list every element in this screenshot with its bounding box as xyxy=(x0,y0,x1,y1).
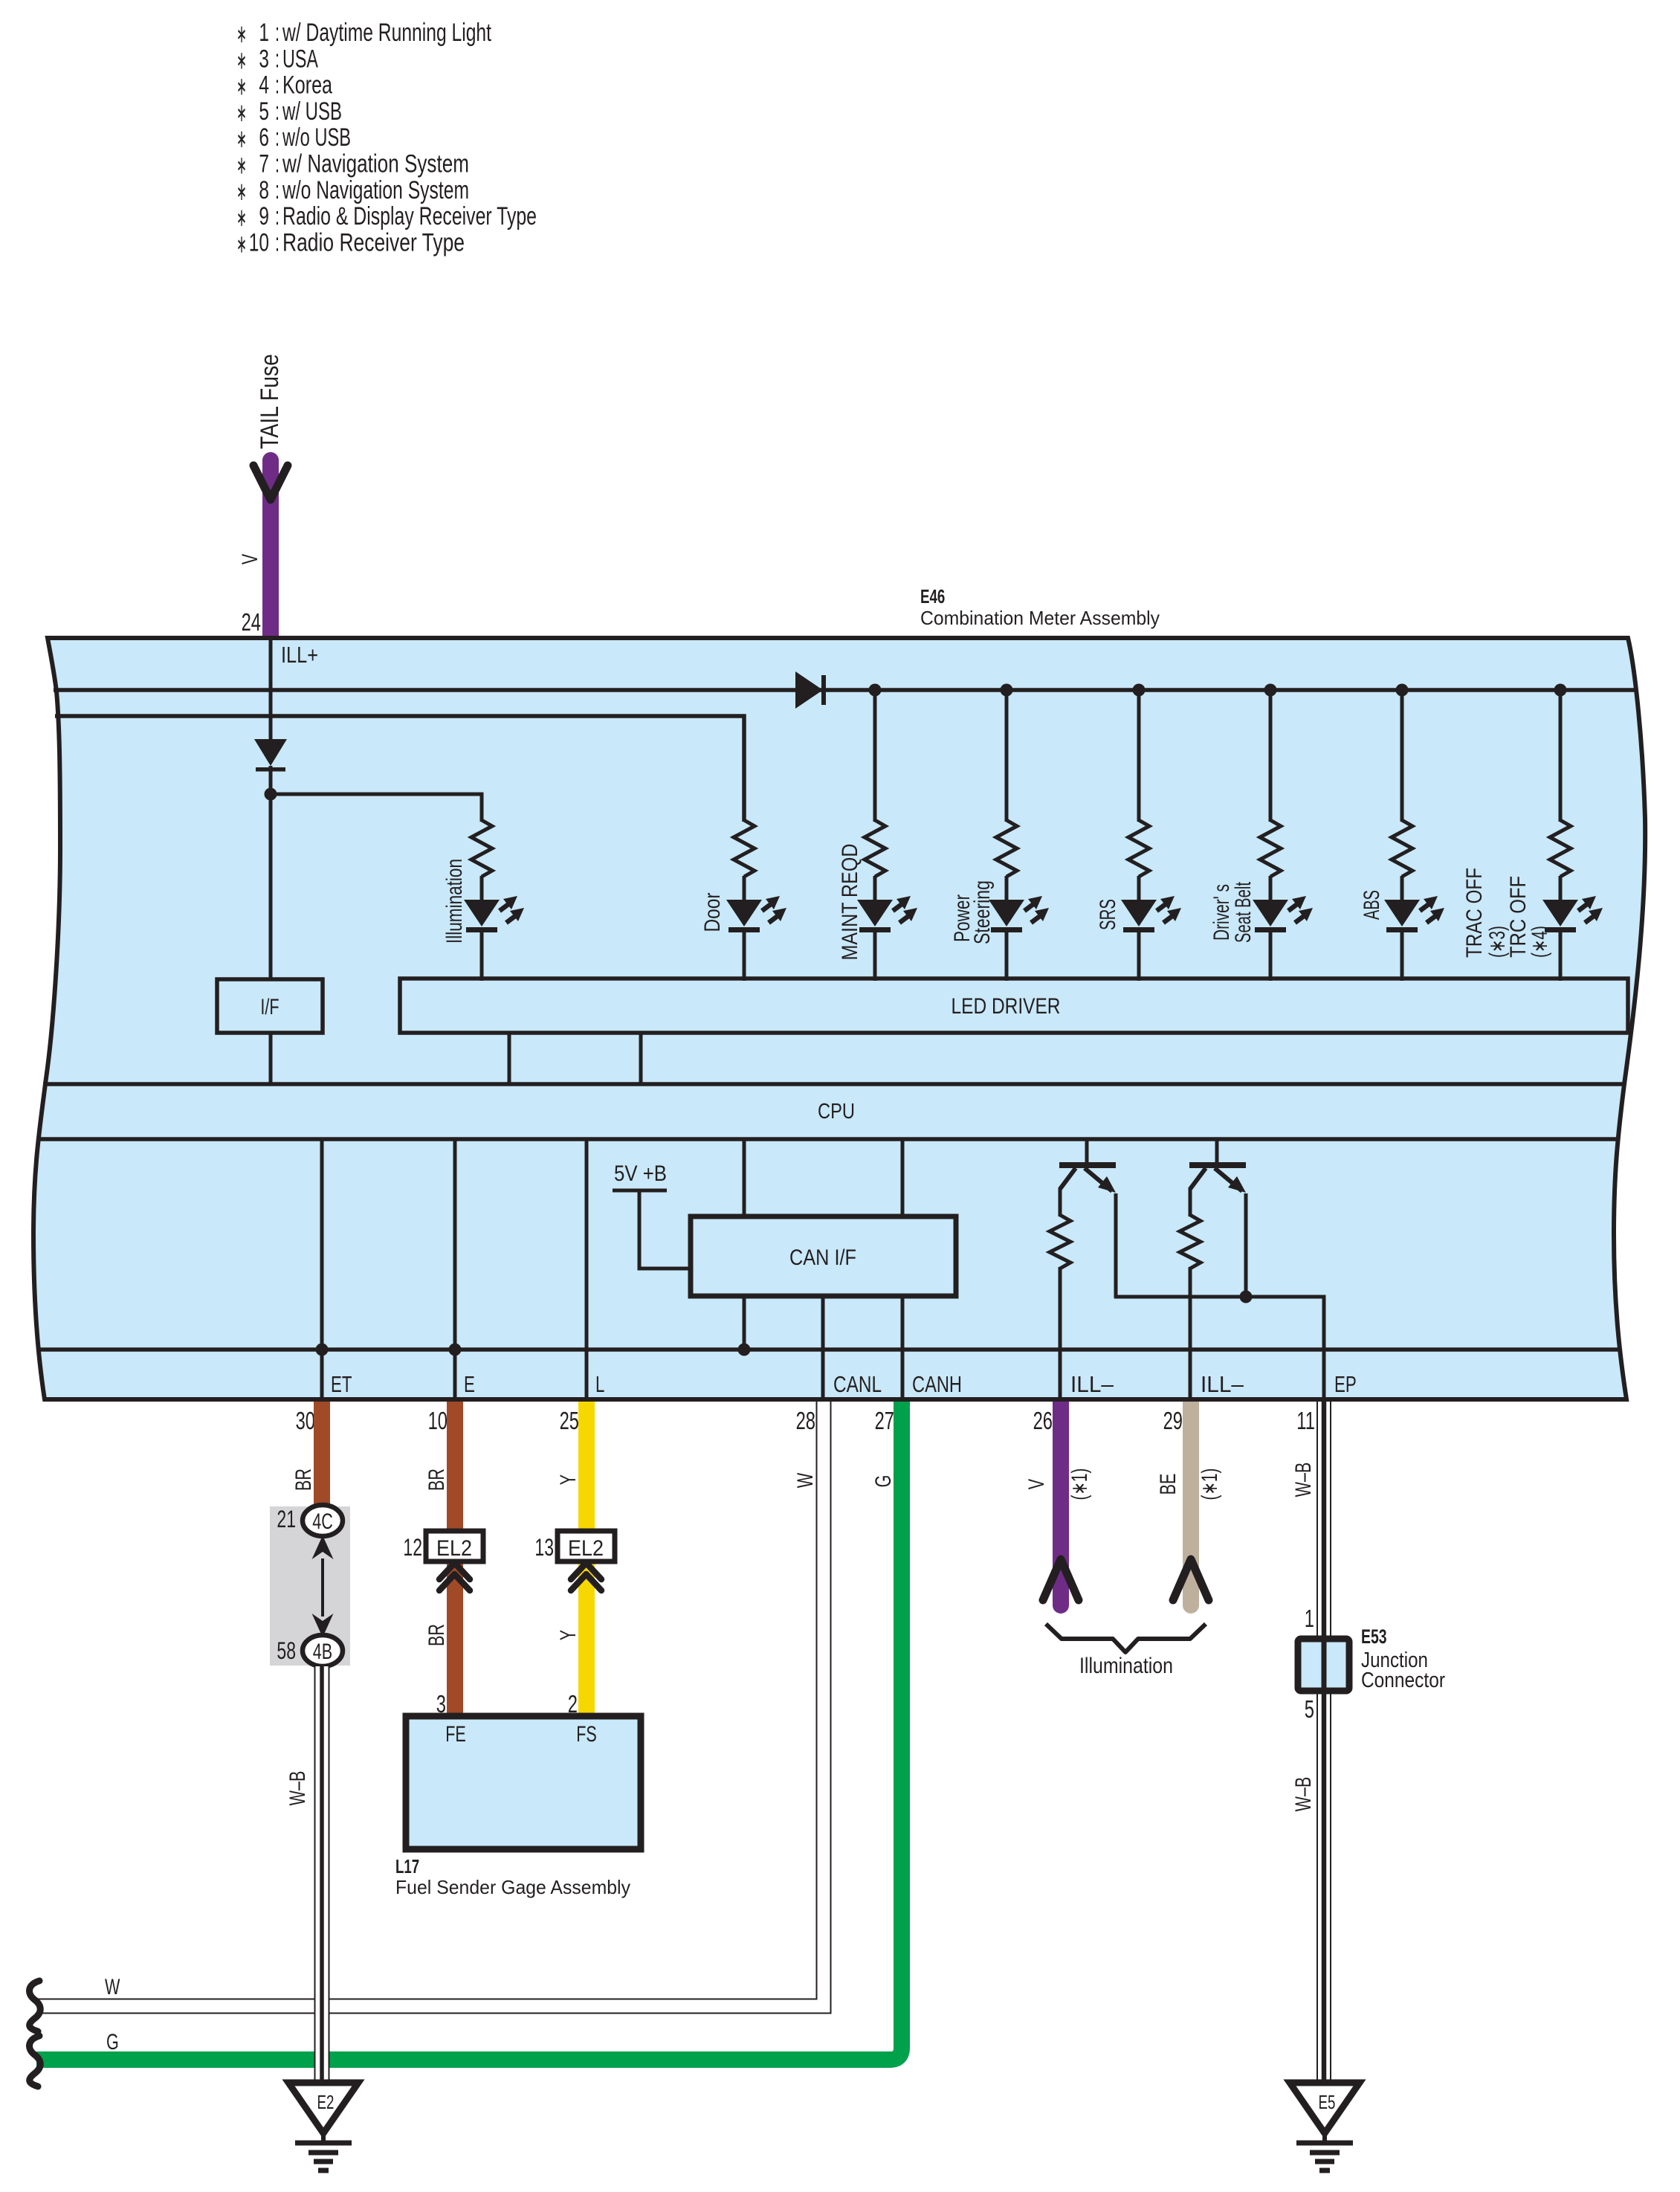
resistor TRAC OFF xyxy=(1550,820,1571,877)
svg-text:∗: ∗ xyxy=(236,204,247,232)
LED indicator seat belt xyxy=(1253,900,1288,926)
resistor SRS xyxy=(1128,820,1149,877)
svg-text:∗: ∗ xyxy=(236,20,247,48)
wire resistor to LED seat belt xyxy=(1269,876,1273,901)
svg-text:W–B: W–B xyxy=(1291,1777,1316,1812)
svg-text:Y: Y xyxy=(556,1474,581,1485)
svg-text:4: 4 xyxy=(259,71,269,100)
ground E5 xyxy=(1290,2083,1360,2170)
wire Y L pin 25 to FS xyxy=(578,1402,595,1718)
resistor power steering xyxy=(996,820,1017,877)
svg-text::: : xyxy=(275,202,280,231)
node junction SRS on ILL+ bus xyxy=(1133,684,1146,697)
transistor Q2 xyxy=(1189,1165,1246,1193)
svg-text:BE: BE xyxy=(1156,1474,1180,1495)
svg-text:∗: ∗ xyxy=(236,230,247,258)
svg-text:9: 9 xyxy=(259,202,269,231)
resistor door xyxy=(734,820,755,877)
svg-text:ILL–: ILL– xyxy=(1201,1371,1244,1397)
node junction TRAC OFF on ILL+ bus xyxy=(1554,684,1567,697)
svg-text:5: 5 xyxy=(259,97,269,126)
resistor ILL- 1 xyxy=(1050,1215,1070,1269)
wire 4C to 4B xyxy=(321,1558,324,1616)
wire CANH xyxy=(901,1294,905,1402)
wire resistor to LED TRAC OFF xyxy=(1559,876,1563,901)
svg-text:CPU: CPU xyxy=(818,1100,855,1124)
svg-text:58: 58 xyxy=(277,1637,296,1664)
wire I/F to CPU xyxy=(269,1033,273,1084)
wire CAN I/F to internal bus xyxy=(743,1294,746,1350)
wire W (CANL pin 28) to left edge xyxy=(36,1402,824,2006)
svg-text:TRAC OFF: TRAC OFF xyxy=(1462,868,1487,958)
svg-text:CAN I/F: CAN I/F xyxy=(789,1245,856,1270)
wire LED to LED driver ABS xyxy=(1400,929,1404,981)
svg-text:Illumination: Illumination xyxy=(442,859,467,944)
svg-text:5V +B: 5V +B xyxy=(614,1161,667,1186)
svg-text:ILL+: ILL+ xyxy=(281,642,318,668)
resistor ABS xyxy=(1392,820,1412,877)
svg-text:11: 11 xyxy=(1296,1407,1315,1434)
wire Q1 collector down xyxy=(1114,1193,1118,1298)
wire 5V to CAN I/F xyxy=(639,1190,691,1269)
svg-text:6: 6 xyxy=(259,123,269,152)
svg-text:Radio & Display Receiver Type: Radio & Display Receiver Type xyxy=(282,202,537,231)
svg-text:E53: E53 xyxy=(1361,1625,1387,1648)
node collector junction xyxy=(1240,1291,1253,1303)
node CAN I/F ground junction xyxy=(738,1344,751,1356)
svg-text:E2: E2 xyxy=(317,2091,335,2113)
chevrons EL2 (13) xyxy=(571,1563,601,1579)
wire G (CANH pin 27) to left edge xyxy=(36,1402,902,2060)
svg-text:Y: Y xyxy=(556,1630,581,1640)
svg-text:Korea: Korea xyxy=(282,71,332,100)
svg-text:28: 28 xyxy=(796,1407,815,1434)
wire resistor to LED power steering xyxy=(1005,876,1009,901)
svg-text:G: G xyxy=(871,1475,896,1488)
svg-text:E5: E5 xyxy=(1319,2091,1336,2113)
svg-text::: : xyxy=(275,123,280,152)
wire bus to resistor SRS xyxy=(1137,690,1141,822)
wire CPU to transistor Q2 base xyxy=(1215,1139,1219,1163)
connector 4C xyxy=(303,1505,343,1536)
svg-text:SRS: SRS xyxy=(1096,899,1120,930)
svg-text:4C: 4C xyxy=(312,1509,333,1534)
svg-text:(∗1): (∗1) xyxy=(1198,1469,1222,1500)
svg-text:EL2: EL2 xyxy=(568,1536,604,1561)
svg-text:7: 7 xyxy=(259,150,269,178)
connector block 4C/4B (gray) xyxy=(270,1506,350,1666)
svg-text:ET: ET xyxy=(331,1371,352,1397)
svg-text:EL2: EL2 xyxy=(436,1536,472,1561)
svg-text:V: V xyxy=(238,554,262,564)
wire Q1 emitter to resistor xyxy=(1059,1187,1062,1216)
svg-text:w/ USB: w/ USB xyxy=(282,97,342,126)
svg-text:ABS: ABS xyxy=(1360,890,1384,920)
ground E2 xyxy=(288,2083,358,2170)
svg-text:(∗4): (∗4) xyxy=(1528,926,1552,958)
arrow down to 4B xyxy=(312,1614,334,1637)
svg-text:5: 5 xyxy=(1305,1695,1314,1723)
wire CPU to CAN I/F right xyxy=(901,1139,905,1219)
internal bus line xyxy=(40,1347,1621,1352)
LED indicator ABS xyxy=(1384,900,1420,926)
svg-text:3: 3 xyxy=(259,45,269,73)
svg-text:w/o USB: w/o USB xyxy=(282,123,351,152)
svg-text:24: 24 xyxy=(242,608,261,636)
wire LED to LED driver door xyxy=(743,929,746,981)
connector EL2 (13) xyxy=(558,1531,615,1561)
svg-text:13: 13 xyxy=(534,1534,554,1561)
CPU band xyxy=(43,1082,1623,1086)
wire LED driver to CPU (left) xyxy=(508,1033,511,1084)
wire LED to LED driver illumination xyxy=(480,929,484,981)
svg-text:4B: 4B xyxy=(313,1640,332,1664)
arrow on ILL- wire 26 xyxy=(1043,1559,1079,1600)
node junction power steering on ILL+ bus xyxy=(1001,684,1013,697)
svg-text:w/ Daytime Running Light: w/ Daytime Running Light xyxy=(282,19,491,47)
svg-text:Seat Belt: Seat Belt xyxy=(1231,882,1256,943)
LED indicator illumination xyxy=(464,900,500,926)
wire pin24 to diode xyxy=(269,638,273,741)
wire BR E pin 10 to FE xyxy=(447,1402,463,1718)
svg-text:w/ Navigation System: w/ Navigation System xyxy=(282,150,469,178)
wire W-B EP pin 11 to ground E5 xyxy=(1316,1402,1331,2083)
svg-text:L: L xyxy=(595,1371,604,1397)
svg-text:Combination Meter Assembly: Combination Meter Assembly xyxy=(920,607,1160,629)
svg-text:8: 8 xyxy=(259,176,269,204)
LED indicator SRS xyxy=(1121,900,1157,926)
svg-text:Door: Door xyxy=(700,892,725,932)
resistor ILL- 2 xyxy=(1180,1215,1201,1269)
svg-text:BR: BR xyxy=(424,1469,449,1491)
svg-text:1: 1 xyxy=(259,19,269,47)
wire CPU to transistor Q1 base xyxy=(1085,1139,1089,1163)
node ET junction xyxy=(316,1344,329,1356)
I/F box xyxy=(217,979,323,1033)
wire resistor to LED MAINT REQD xyxy=(873,876,877,901)
svg-text::: : xyxy=(275,176,280,204)
svg-text:(∗1): (∗1) xyxy=(1067,1469,1092,1500)
svg-text:10: 10 xyxy=(249,228,269,257)
wire Q2 collector down xyxy=(1244,1193,1248,1298)
label TRAC OFF (*3) TRC OFF (*4) xyxy=(1462,868,1552,958)
chevrons EL2 (12) xyxy=(439,1563,470,1579)
CAN I/F box xyxy=(691,1216,956,1296)
wire resistor to ILL- pin 1 xyxy=(1059,1267,1062,1402)
svg-text:CANH: CANH xyxy=(912,1371,962,1397)
svg-text:FE: FE xyxy=(445,1722,466,1747)
wire bus to resistor ABS xyxy=(1400,690,1404,822)
svg-text:W: W xyxy=(793,1472,818,1488)
svg-text:W–B: W–B xyxy=(285,1771,310,1806)
junction connector E53 xyxy=(1298,1639,1349,1691)
power rail 5V xyxy=(613,1189,667,1193)
svg-text::: : xyxy=(275,45,280,73)
svg-text:FS: FS xyxy=(576,1722,597,1747)
svg-text:CANL: CANL xyxy=(833,1371,882,1397)
LED DRIVER box xyxy=(400,979,1628,1033)
wire W-B 4B to ground E2 xyxy=(314,1666,330,2083)
brace illumination xyxy=(1046,1624,1206,1652)
diode D2 on ILL+ bus (horizontal) xyxy=(795,671,823,709)
svg-text:BR: BR xyxy=(291,1469,316,1491)
transistor Q1 xyxy=(1059,1165,1116,1193)
svg-text:29: 29 xyxy=(1163,1407,1183,1434)
wire BR ET pin 30 xyxy=(314,1402,330,1506)
resistor seat belt xyxy=(1260,820,1281,877)
wire V from TAIL fuse to pin 24 xyxy=(262,460,279,641)
diode D1 (vertical) xyxy=(254,739,287,766)
wire CPU to CAN I/F left xyxy=(743,1139,746,1219)
svg-text:W–B: W–B xyxy=(1291,1463,1316,1498)
svg-text:LED DRIVER: LED DRIVER xyxy=(952,994,1061,1019)
wire CANL xyxy=(821,1294,825,1402)
svg-text:∗: ∗ xyxy=(236,46,247,74)
node junction ABS on ILL+ bus xyxy=(1396,684,1409,697)
svg-text:25: 25 xyxy=(560,1407,579,1434)
svg-text::: : xyxy=(275,150,280,178)
node ILL+ internal junction xyxy=(265,788,277,801)
component box E46 Combination Meter Assembly xyxy=(33,638,1645,1399)
wire Q2 emitter to resistor xyxy=(1189,1187,1192,1216)
svg-text:EP: EP xyxy=(1334,1371,1357,1397)
wire resistor to ILL- pin 2 xyxy=(1189,1267,1192,1402)
svg-text:21: 21 xyxy=(277,1506,296,1532)
wire V ILL- pin 26 xyxy=(1053,1402,1069,1597)
svg-text:G: G xyxy=(106,2030,119,2054)
svg-text:Radio Receiver Type: Radio Receiver Type xyxy=(282,228,465,257)
resistor MAINT REQD xyxy=(865,820,885,877)
wire LED to LED driver TRAC OFF xyxy=(1559,929,1563,981)
svg-text:BR: BR xyxy=(424,1624,449,1646)
svg-text:Connector: Connector xyxy=(1361,1669,1445,1692)
node junction seat belt on ILL+ bus xyxy=(1264,684,1277,697)
component box L17 Fuel Sender Gage Assembly xyxy=(406,1716,641,1849)
squiggle continuation W xyxy=(30,1981,41,2031)
svg-text:∗: ∗ xyxy=(236,73,247,101)
wire BE ILL- pin 29 xyxy=(1183,1402,1199,1597)
note legend xyxy=(236,19,537,258)
svg-text:10: 10 xyxy=(428,1407,448,1434)
svg-text:30: 30 xyxy=(296,1407,315,1434)
wire bus to resistor MAINT REQD xyxy=(873,690,877,822)
svg-text::: : xyxy=(275,71,280,100)
wire bus to resistor seat belt xyxy=(1269,690,1273,822)
bus line ILL+ second xyxy=(55,716,744,822)
svg-text:Fuel Sender Gage Assembly: Fuel Sender Gage Assembly xyxy=(395,1876,630,1898)
svg-text:E46: E46 xyxy=(920,585,945,607)
svg-text:ILL–: ILL– xyxy=(1070,1371,1114,1397)
wire resistor to LED SRS xyxy=(1137,876,1141,901)
svg-text:27: 27 xyxy=(875,1407,894,1434)
svg-text:I/F: I/F xyxy=(260,995,279,1019)
wire bus to resistor TRAC OFF xyxy=(1559,690,1563,822)
svg-text:V: V xyxy=(1024,1479,1049,1489)
wire ET from CPU xyxy=(320,1139,324,1402)
wire junction to illumination resistor xyxy=(271,794,482,822)
wire LED driver to CPU (right) xyxy=(639,1033,643,1084)
LED indicator power steering xyxy=(989,900,1024,926)
svg-text:∗: ∗ xyxy=(236,152,247,180)
svg-text::: : xyxy=(275,97,280,126)
LED indicator TRAC OFF xyxy=(1542,900,1578,926)
wire resistor to LED door xyxy=(743,876,746,901)
svg-text:1: 1 xyxy=(1305,1605,1314,1632)
arrow up to 4C xyxy=(312,1535,334,1559)
svg-text:Steering: Steering xyxy=(970,880,995,944)
wire LED to LED driver seat belt xyxy=(1269,929,1273,981)
LED indicator MAINT REQD xyxy=(857,900,893,926)
svg-text::: : xyxy=(275,228,280,257)
wire E from CPU xyxy=(453,1139,457,1402)
wire collector bus to EP xyxy=(1114,1297,1324,1402)
svg-text:TAIL Fuse: TAIL Fuse xyxy=(256,354,284,449)
svg-text:∗: ∗ xyxy=(236,125,247,153)
svg-text:MAINT REQD: MAINT REQD xyxy=(838,844,862,961)
wire LED to LED driver SRS xyxy=(1137,929,1141,981)
squiggle continuation G xyxy=(30,2036,41,2086)
node junction MAINT REQD on ILL+ bus xyxy=(869,684,882,697)
wire L from CPU xyxy=(585,1139,589,1402)
svg-text:∗: ∗ xyxy=(236,99,247,127)
wire bus to resistor power steering xyxy=(1005,690,1009,822)
svg-text:E: E xyxy=(464,1371,475,1397)
wire LED to LED driver MAINT REQD xyxy=(873,929,877,981)
svg-text::: : xyxy=(275,19,280,47)
node E junction xyxy=(449,1344,462,1356)
resistor illumination xyxy=(471,820,492,877)
wire resistor to LED ABS xyxy=(1400,876,1404,901)
svg-text:W: W xyxy=(105,1975,120,1999)
svg-text:w/o Navigation System: w/o Navigation System xyxy=(282,176,469,204)
svg-text:12: 12 xyxy=(403,1534,422,1561)
wire junction to I/F xyxy=(269,794,273,979)
svg-text:L17: L17 xyxy=(395,1855,419,1877)
bus line ILL+ top xyxy=(54,688,1635,692)
svg-text:∗: ∗ xyxy=(236,178,247,206)
wire resistor to LED illumination xyxy=(480,876,484,901)
LED indicator door xyxy=(726,900,762,926)
connector 4B xyxy=(303,1635,343,1666)
svg-text:26: 26 xyxy=(1033,1407,1053,1434)
arrow from TAIL fuse xyxy=(253,465,288,500)
wire LED to LED driver power steering xyxy=(1005,929,1009,981)
svg-text:USA: USA xyxy=(282,45,318,73)
arrow on ILL- wire 29 xyxy=(1173,1559,1209,1600)
svg-text:Illumination: Illumination xyxy=(1079,1654,1173,1678)
connector EL2 (12) xyxy=(426,1531,483,1561)
